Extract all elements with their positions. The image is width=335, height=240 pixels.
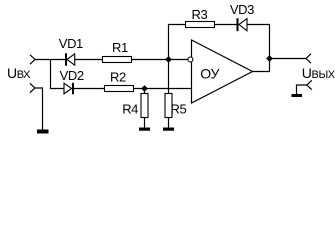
wire VD2 to R2 — [74, 88, 105, 90]
svg-text:VD2: VD2 — [60, 68, 84, 83]
svg-text:ОУ: ОУ — [200, 65, 219, 81]
svg-text:R1: R1 — [112, 40, 128, 55]
wire output to terminal — [270, 58, 307, 60]
wire feedback up-left — [169, 25, 186, 60]
input terminal bottom (Uвх lower pin) — [30, 83, 35, 92]
junction node B (output) — [266, 55, 273, 62]
output terminal top (Uвых upper pin) — [306, 54, 311, 63]
ground bar input — [37, 130, 49, 134]
wire R1 to node A and op-amp inverting input — [132, 59, 189, 61]
svg-text:VD1: VD1 — [59, 36, 83, 51]
ground bar under R5 — [163, 128, 174, 131]
svg-text:UВЫХ: UВЫХ — [302, 65, 335, 81]
input terminal top (Uвх upper pin) — [30, 55, 35, 64]
svg-text:R4: R4 — [122, 102, 138, 117]
op-amp U1 triangle — [192, 40, 253, 103]
svg-text:R2: R2 — [110, 69, 126, 84]
svg-text:R3: R3 — [192, 7, 208, 22]
junction node A — [165, 56, 172, 63]
resistor R4 with stem — [141, 89, 148, 128]
wire VD3 to right feedback corner, down to output level — [247, 25, 270, 72]
svg-text:VD3: VD3 — [230, 2, 254, 17]
resistor R3 — [186, 22, 215, 28]
junction node C (R2/R4) — [141, 85, 148, 92]
svg-text:R5: R5 — [171, 102, 187, 117]
wire branch vertical to VD2 row — [51, 60, 65, 89]
wire lower pin to ground — [35, 88, 43, 130]
wire lower output pin to ground — [297, 85, 307, 94]
ground bar under R4 — [139, 128, 150, 131]
inverting input circle — [188, 57, 193, 62]
ground bar output — [292, 94, 303, 97]
wire R3 to VD3 — [215, 24, 237, 26]
diode VD3 — [238, 18, 248, 31]
svg-text:UВХ: UВХ — [7, 65, 31, 81]
resistor R2 — [105, 86, 134, 92]
resistor R5 with stem from node A — [165, 60, 172, 128]
resistor R1 — [103, 57, 132, 63]
wire VD1 to R1 — [75, 59, 103, 61]
diode VD2 — [64, 83, 73, 94]
diode VD1 — [66, 53, 75, 65]
output terminal bottom (Uвых lower pin) — [307, 80, 312, 89]
wire R2 to op-amp noninverting input — [134, 88, 192, 90]
wire input to VD1 — [35, 59, 65, 61]
